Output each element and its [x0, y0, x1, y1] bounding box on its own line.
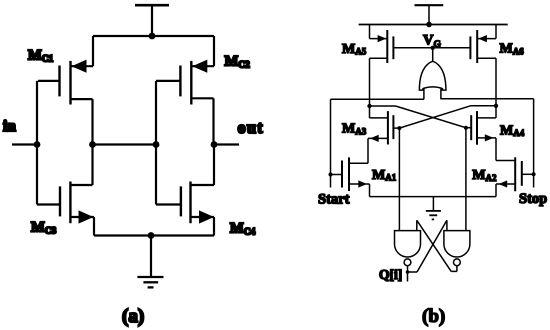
wire: MC4 source to bottom rail [213, 217, 215, 236]
svg-text:(b): (b) [422, 306, 445, 327]
svg-text:MC2: MC2 [225, 54, 251, 71]
transistor MA6 [470, 30, 496, 63]
transistor MA3 [368, 111, 399, 144]
wire: top rail (b) [359, 24, 508, 26]
transistor MA1 [331, 157, 370, 191]
transistor MA4 [466, 111, 496, 145]
wire: MA5 source to rail [369, 25, 371, 39]
wire: or-gate left input leg [423, 89, 425, 100]
transistor MC4 [156, 182, 214, 224]
wire: MA3 gate to left NAND input [398, 128, 400, 231]
wire: MC4 drain up to out-row [191, 145, 215, 186]
transistor MC1 [38, 60, 93, 105]
node: bottom rail junction (a) [148, 232, 155, 239]
svg-text:Q[i]: Q[i] [379, 267, 402, 282]
or-gate U1 [419, 48, 446, 90]
transistor MC3 [37, 182, 94, 224]
svg-text:Stop: Stop [519, 191, 547, 207]
wire: MA3 drain link [370, 106, 388, 118]
wire: top rail (a) [93, 35, 214, 37]
wire: MA2 source corner [495, 184, 497, 197]
wire: MA5 drain down [369, 58, 371, 106]
ground (b) [426, 197, 441, 220]
wire: or-gate right input leg [440, 89, 442, 100]
wire: gate column right (MC2-MC4 gates) [155, 81, 157, 205]
wire: MC3 source to bottom rail [93, 217, 95, 236]
node: top rail junction (a) [149, 33, 156, 40]
wire: left NAND output to Q and cross [408, 220, 447, 272]
wire: MC1 drain to rail [92, 36, 94, 66]
wire: MA1 source corner [369, 184, 371, 197]
node: in junction [34, 141, 41, 148]
ground (a) [137, 236, 163, 288]
wire: stop line top [441, 99, 534, 188]
wire: MA2 drain link [496, 160, 515, 162]
svg-text:(a): (a) [122, 306, 144, 327]
wire: MA1 drain up [349, 162, 368, 164]
wire: MC2 drain to rail [213, 36, 215, 66]
wire: start line top [331, 99, 424, 187]
svg-text:VG: VG [423, 33, 441, 50]
wire: bottom rail (a) [94, 234, 214, 236]
svg-text:out: out [238, 118, 264, 137]
power supply VDD (a) [135, 5, 169, 36]
node: MA6 drain / cross B [494, 104, 498, 108]
svg-text:MA1: MA1 [372, 168, 397, 183]
node: top rail junction (b) [426, 22, 432, 28]
svg-text:MC1: MC1 [28, 48, 54, 65]
transistor MA2 [496, 157, 534, 191]
wire: VG gate line [393, 47, 470, 49]
node: mid link left end [89, 141, 96, 148]
svg-text:MA6: MA6 [500, 42, 525, 57]
wire: MA4 gate to right NAND input [465, 128, 467, 231]
svg-text:MA5: MA5 [342, 42, 367, 57]
node: MA3 gate [397, 126, 401, 130]
transistor MA5 [370, 30, 394, 63]
wire: gate column left (MC1-MC3 gates) [36, 81, 38, 205]
node: VG junction [431, 46, 435, 50]
transistor MC2 [156, 60, 214, 105]
nand-gate U3 (right) [444, 231, 470, 266]
node: MA4 gate [464, 126, 468, 130]
node: out junction [211, 141, 218, 148]
node: start gate junction [329, 173, 333, 177]
svg-text:Start: Start [318, 191, 350, 207]
node: mid link right end [153, 141, 160, 148]
wire: MC3 drain up to in-row [70, 145, 92, 186]
wire: MA6 drain down [495, 58, 497, 106]
wire: bottom rail (b) [370, 196, 497, 198]
node: stop gate junction [532, 172, 536, 176]
wire: MA4 drain link [477, 106, 496, 118]
wire: MC2 source down to out-row [212, 98, 214, 144]
svg-text:MA4: MA4 [500, 123, 525, 138]
svg-text:MC4: MC4 [230, 221, 256, 238]
node: Q output junction [406, 270, 410, 274]
wire: cross couple A to MA4 gate [370, 106, 466, 128]
svg-text:in: in [3, 118, 16, 135]
wire: MA6 source to rail [495, 25, 497, 39]
wire: Q[i] lead [407, 272, 409, 282]
wire: in lead [12, 143, 37, 145]
wire: cross couple B to MA3 gate [399, 106, 496, 128]
svg-text:MA3: MA3 [342, 122, 367, 137]
nand-gate U2 (left) [395, 231, 421, 266]
svg-text:MC3: MC3 [31, 220, 57, 237]
svg-text:MA2: MA2 [472, 168, 497, 183]
wire: right NAND output cross [417, 220, 457, 271]
power supply VDD (b) [415, 5, 444, 24]
node: MA5 drain / cross A [367, 104, 371, 108]
wire: MA4 source down [495, 138, 497, 161]
wire: out lead [214, 143, 239, 145]
wire: mid link left [93, 143, 157, 145]
wire: MA3 source down [367, 138, 369, 163]
wire: MC1 source down to in-row [91, 99, 93, 144]
